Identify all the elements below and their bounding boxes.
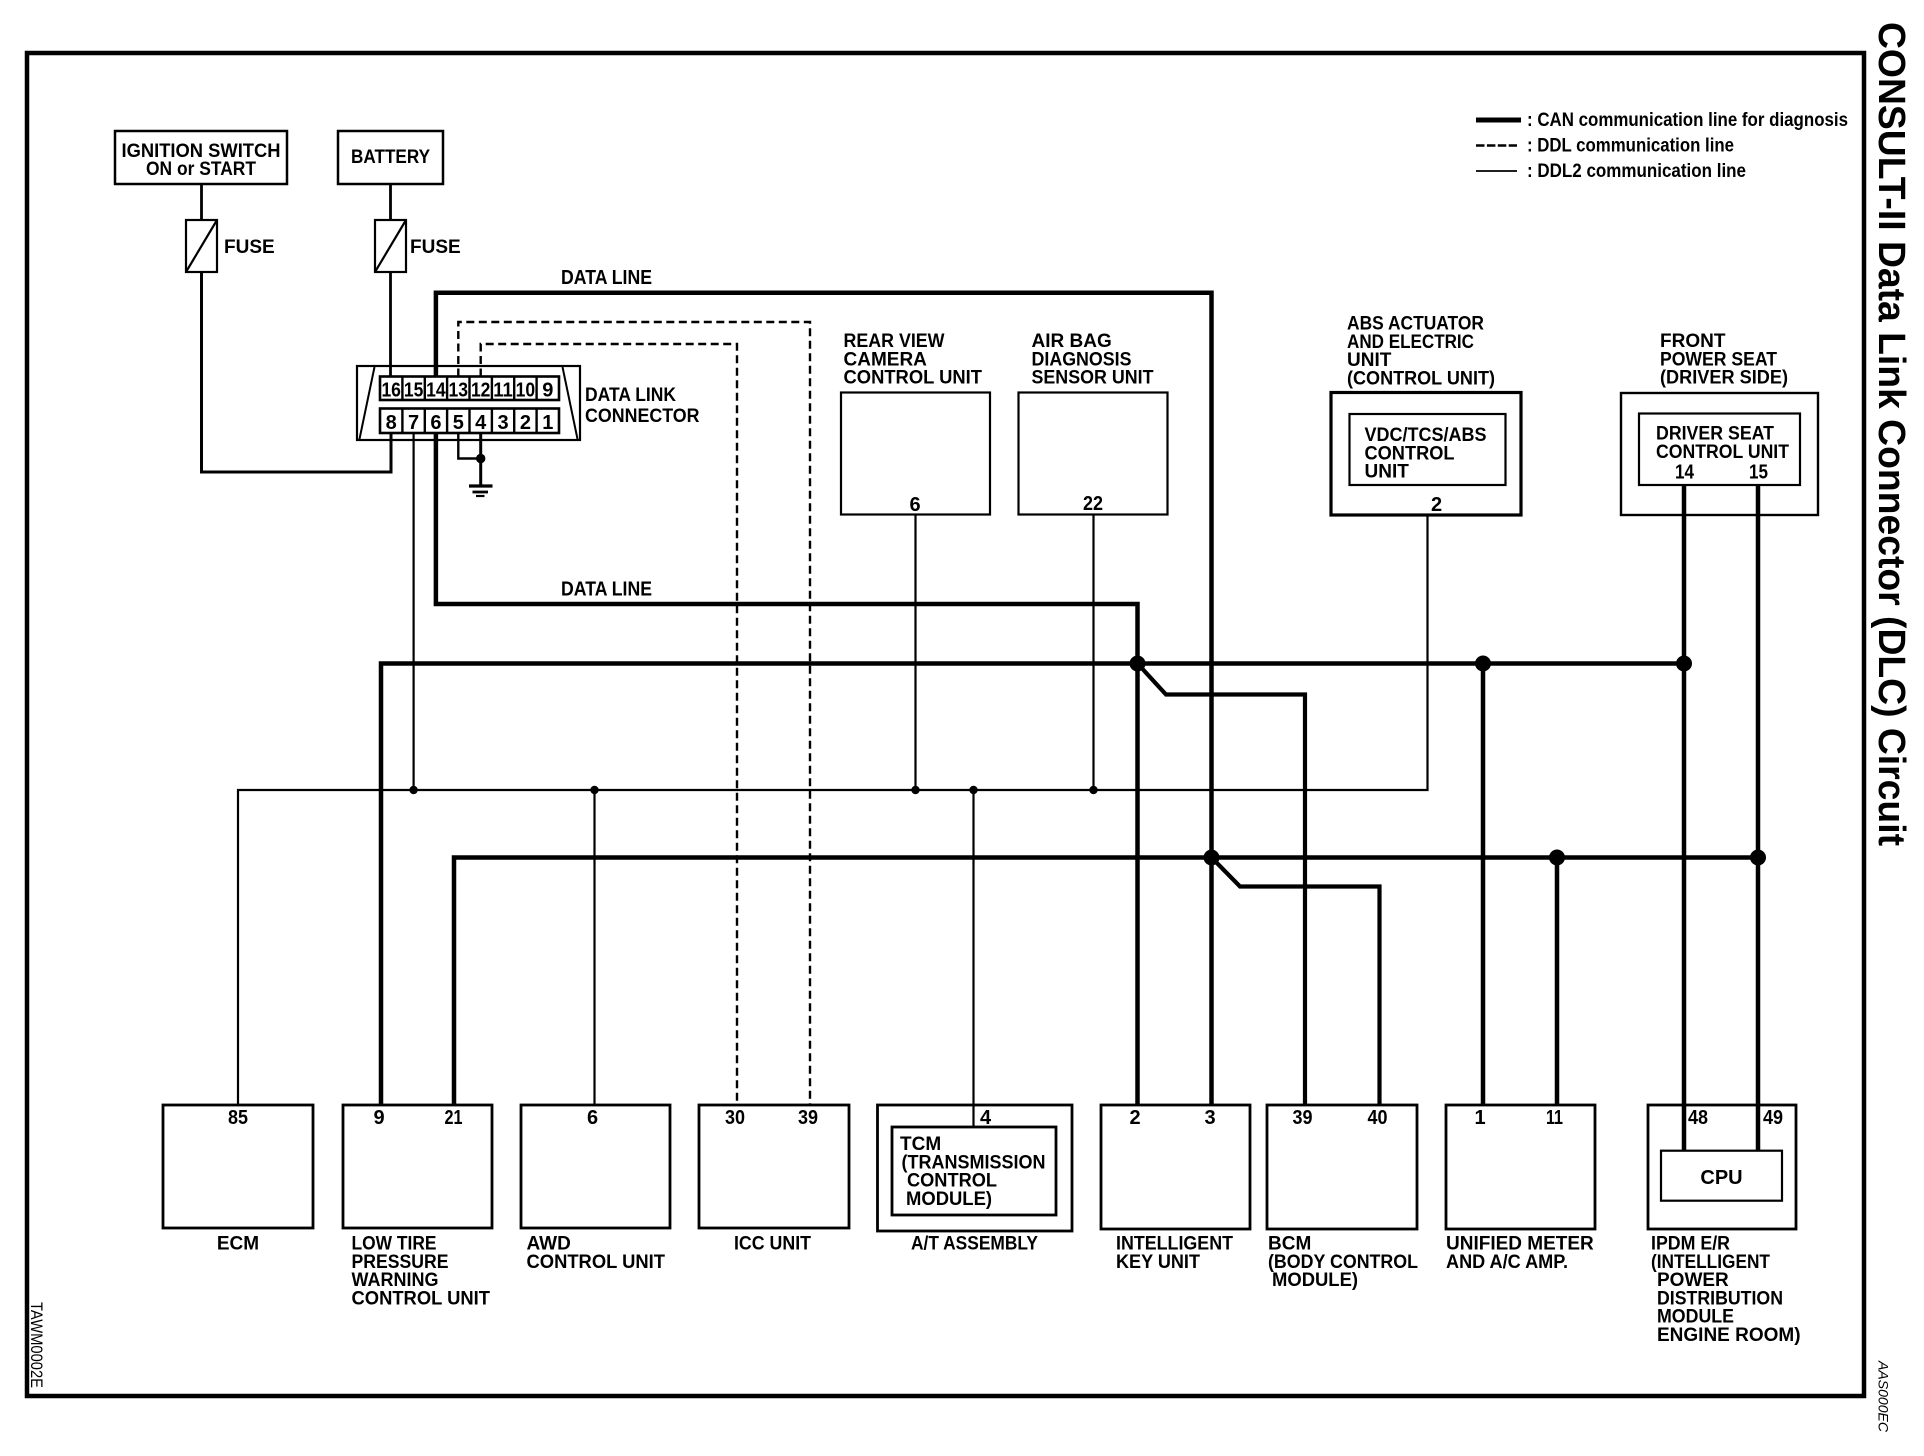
svg-text:7: 7 [408,412,419,434]
driver seat control unit inner box [1639,414,1800,486]
front power seat U-FPS [1621,331,1818,515]
wire DDL2 bus C: ECM pin 85 to VDC/TCS/ABS pin 2 [238,515,1428,1106]
junction bus B / data line 1 [1204,850,1220,866]
svg-text:5: 5 [453,412,464,434]
svg-text:MODULE): MODULE) [1272,1270,1358,1291]
junction bus C / air bag sensor [1089,786,1097,794]
svg-text:KEY UNIT: KEY UNIT [1116,1252,1200,1273]
svg-text:UNIT: UNIT [1365,462,1410,483]
wire CAN bus A: low tire pin 9 to driver seat pin 14 line [381,664,1684,1106]
svg-text:CONSULT-II Data Link Connector: CONSULT-II Data Link Connector (DLC) Cir… [1870,22,1912,846]
svg-text:(CONTROL UNIT): (CONTROL UNIT) [1347,368,1495,389]
low tire pressure warning control unit box [343,1105,492,1309]
svg-text:ICC UNIT: ICC UNIT [734,1234,811,1255]
wire DDL2: rear view camera pin 6 to bus C [914,515,916,791]
wire CAN: driver seat pin 14 to IPDM pin 48 [1682,485,1687,1151]
svg-text:3: 3 [1204,1107,1215,1129]
svg-text:DATA LINE: DATA LINE [561,579,652,601]
CPU inner box [1661,1151,1782,1201]
DLC pin row 16-9 [380,377,559,402]
intelligent key unit box [1101,1105,1250,1273]
wire DLC pin 5 to ground node [458,433,480,459]
svg-text:15: 15 [1749,462,1768,484]
junction bus A / driver seat line [1676,656,1692,672]
ECM box [163,1105,313,1255]
wire DDL: DLC pin 13 to ICC unit pin 39 [458,322,810,1105]
svg-text:4: 4 [475,412,487,434]
ICC unit box [699,1105,849,1255]
junction bus B / unified meter pin 11 [1549,850,1565,866]
svg-text:BATTERY: BATTERY [351,147,430,168]
legend DDL2 line sample [1476,170,1517,172]
wire CAN data line 2: DLC pin 6 to intelligent key pin 2 [436,433,1138,1105]
svg-text:SENSOR UNIT: SENSOR UNIT [1032,368,1154,389]
BCM body control module box [1267,1105,1418,1291]
svg-text:CONNECTOR: CONNECTOR [585,406,700,427]
data link connector [357,366,580,440]
svg-text:CPU: CPU [1700,1167,1742,1189]
svg-text:1: 1 [542,412,553,434]
DLC pin row 8-1 [380,409,559,435]
svg-text:6: 6 [430,412,441,434]
svg-text:9: 9 [542,380,553,402]
svg-text:11: 11 [1546,1107,1563,1129]
wire CAN: bus A to unified meter pin 1 [1481,664,1486,1106]
wire DDL: DLC pin 12 to ICC unit pin 30 [481,344,737,1105]
svg-text:1: 1 [1474,1107,1485,1129]
svg-text:ECM: ECM [217,1234,259,1255]
svg-text:39: 39 [1293,1107,1313,1129]
legend DDL line sample [1476,144,1517,147]
svg-text:DATA LINK: DATA LINK [585,385,676,406]
svg-text:2: 2 [1129,1107,1140,1129]
svg-text:39: 39 [798,1107,818,1129]
junction bus A / data line 2 [1130,656,1146,672]
junction bus B / driver seat pin 15 line [1750,850,1766,866]
svg-text:ENGINE ROOM): ENGINE ROOM) [1657,1325,1801,1346]
wire fuse F2 to DLC pin 16 [389,272,392,377]
svg-text:CONTROL UNIT: CONTROL UNIT [527,1252,666,1273]
svg-text:15: 15 [404,380,424,402]
A/T assembly box [878,1105,1073,1255]
svg-text:14: 14 [1675,462,1695,484]
svg-text:MODULE): MODULE) [906,1189,992,1210]
svg-text:AND A/C AMP.: AND A/C AMP. [1446,1252,1568,1273]
ABS actuator and electric unit U-ABS [1331,314,1521,516]
svg-text:6: 6 [587,1107,598,1129]
wire fuse F1 to DLC pin 8 [202,272,392,472]
legend CAN line sample [1476,118,1521,123]
svg-text:85: 85 [228,1107,248,1129]
svg-text:48: 48 [1688,1107,1708,1129]
svg-text:AAS000EC: AAS000EC [1876,1360,1891,1432]
wire DDL2: DLC pin 7 to bus C [413,433,415,790]
svg-text:: DDL2 communication line: : DDL2 communication line [1527,161,1746,182]
wire DLC pin 4 to ground [479,433,482,485]
svg-text:TAWM0002E: TAWM0002E [27,1302,46,1388]
svg-text:: DDL communication line: : DDL communication line [1527,136,1734,157]
svg-text:14: 14 [426,380,446,402]
wire CAN data line 1: DLC pin 14 to intelligent key pin 3 [436,293,1212,1105]
junction bus C / rear view camera [911,786,919,794]
wire battery to fuse [389,184,392,220]
svg-text:10: 10 [516,380,536,402]
air bag diagnosis sensor unit U-AB [1019,331,1168,515]
svg-text:49: 49 [1763,1107,1783,1129]
svg-text:22: 22 [1083,493,1103,515]
wire CAN: bus B to unified meter pin 11 [1555,858,1560,1106]
svg-text:21: 21 [445,1107,463,1129]
unified meter and A/C amp box [1446,1105,1595,1273]
rear view camera control unit U-RVC [841,331,990,515]
svg-text:3: 3 [497,412,508,434]
junction bus C / AWD pin 6 [590,786,598,794]
svg-text:11: 11 [493,380,513,402]
IPDM E/R box [1648,1105,1801,1346]
svg-text:8: 8 [386,412,397,434]
svg-text:ON or START: ON or START [146,159,256,180]
battery box [338,131,443,184]
junction ground node [476,454,485,463]
svg-text:9: 9 [373,1107,384,1129]
svg-text:: CAN communication line for d: : CAN communication line for diagnosis [1527,110,1848,131]
svg-text:CONTROL UNIT: CONTROL UNIT [352,1288,491,1309]
VDC/TCS/ABS control unit inner box [1350,414,1506,485]
svg-text:16: 16 [381,380,401,402]
wire DDL2: air bag sensor pin 22 to bus C [1092,515,1094,791]
junction bus C / TCM pin 4 [969,786,977,794]
svg-text:FUSE: FUSE [224,237,275,258]
ground [469,486,493,496]
svg-text:2: 2 [520,412,531,434]
svg-text:CONTROL UNIT: CONTROL UNIT [844,368,983,389]
wire DDL2: bus C to TCM pin 4 [972,790,974,1127]
svg-text:30: 30 [725,1107,745,1129]
wire CAN branch: bus A to BCM pin 39 [1138,664,1306,1106]
svg-text:A/T ASSEMBLY: A/T ASSEMBLY [911,1234,1038,1255]
svg-text:DATA LINE: DATA LINE [561,267,652,289]
svg-text:13: 13 [449,380,469,402]
wire CAN branch: bus B to BCM pin 40 [1212,858,1380,1106]
ignition switch box [115,131,287,184]
svg-text:CONTROL UNIT: CONTROL UNIT [1656,442,1789,463]
junction bus A / unified meter pin 1 [1475,656,1491,672]
fuse F1 [186,220,275,272]
svg-text:6: 6 [909,494,920,516]
AWD control unit box [521,1105,670,1273]
wire CAN: driver seat pin 15 to IPDM pin 49 [1756,485,1761,1151]
wire CAN bus B: low tire pin 21 to driver seat pin 15 line [454,858,1758,1106]
svg-text:FUSE: FUSE [410,237,461,258]
svg-text:2: 2 [1431,494,1442,516]
svg-text:12: 12 [471,380,491,402]
wire ignition switch to fuse [200,184,203,220]
svg-text:40: 40 [1368,1107,1388,1129]
junction bus C / DLC pin 7 [409,786,417,794]
TCM transmission control module inner box [892,1127,1056,1215]
fuse F2 [375,220,461,272]
svg-text:(DRIVER SIDE): (DRIVER SIDE) [1660,368,1788,389]
wire DDL2: bus C to AWD pin 6 [593,790,595,1105]
